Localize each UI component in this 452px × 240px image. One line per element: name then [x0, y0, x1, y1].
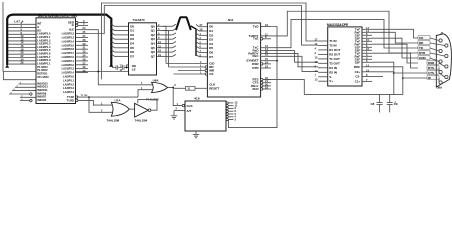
wire OR1 out down to U5 CLK — [173, 87, 182, 105]
wire U2 Q0 to bus right — [163, 26, 167, 63]
wire U4 pin down riser right — [372, 67, 403, 95]
wire group DB9 label to pin — [430, 38, 445, 83]
IC U3 8251 USART box — [207, 23, 260, 97]
node junction CTS riser — [393, 72, 395, 74]
svg-text:U6A: U6A — [153, 78, 160, 82]
pin bubble U1 bottom right 2 — [76, 99, 78, 101]
svg-text:A/T: A/T — [187, 109, 192, 113]
svg-text:LA4/P3.4: LA4/P3.4 — [63, 90, 75, 94]
wire group bus entries to U3 D pins — [196, 25, 207, 57]
svg-text:IN3/IO11: IN3/IO11 — [37, 88, 48, 92]
svg-text:LA7_9: LA7_9 — [14, 19, 23, 23]
svg-text:LA2/P3.2: LA2/P3.2 — [63, 82, 75, 86]
svg-text:CLK: CLK — [187, 104, 194, 108]
wire group U1 right pin stubs — [76, 30, 89, 73]
pin numbers OR2 inputs — [101, 101, 103, 112]
wire route TxRDY top C — [271, 11, 418, 53]
bus AD vertical right of arc — [191, 26, 196, 56]
svg-text:74ALS08: 74ALS08 — [107, 118, 120, 122]
IC U1 EPLD box — [36, 18, 76, 104]
pin bubble U3 RD — [205, 66, 207, 68]
wire U3 WR input — [178, 70, 207, 72]
pin bubble U5 CLK — [182, 104, 184, 106]
wire net ISA long horizontal to U2 LE — [3, 71, 129, 73]
wire U5 AT input from ground — [174, 110, 185, 112]
wire tap to DB9 CTS label — [394, 72, 427, 74]
svg-text:XTL1/IO0: XTL1/IO0 — [37, 75, 49, 79]
text U5 pin names — [187, 104, 194, 113]
wire group U4 left stubs — [318, 41, 328, 81]
wire U1 ALE to OR1 via vertical x98 — [88, 30, 153, 85]
wire long left vertical net ISA-D0 — [2, 2, 4, 72]
svg-text:RI.D: RI.D — [253, 87, 260, 91]
text U2 pin names D Q — [130, 24, 155, 71]
wire OR1 output junction — [168, 86, 174, 89]
svg-text:R2 IN: R2 IN — [329, 70, 337, 74]
IC U5 divider box — [185, 101, 226, 131]
svg-text:DM74LS245(8C) EPLD 7064: DM74LS245(8C) EPLD 7064 — [38, 14, 77, 18]
svg-text:Q7: Q7 — [151, 54, 155, 58]
svg-text:TY_R2: TY_R2 — [81, 95, 89, 97]
node junction on LE wire — [97, 71, 99, 73]
pin bubbles U3 right — [261, 38, 263, 91]
text U3 right pin names — [246, 25, 259, 91]
svg-text:LA26/P3.6: LA26/P3.6 — [62, 47, 75, 51]
svg-text:LA32/P2.4: LA32/P2.4 — [62, 71, 75, 75]
svg-text:R2 OUT: R2 OUT — [329, 52, 340, 56]
pin numbers U3 left D — [200, 23, 203, 57]
svg-text:DTR: DTR — [252, 66, 259, 70]
capacitor C7 inline — [120, 65, 129, 69]
ground below U5 — [195, 131, 197, 134]
svg-text:U7A: U7A — [115, 99, 122, 103]
pin bubble U1 right 1 — [76, 21, 78, 23]
capacitor C8 lead — [379, 95, 381, 103]
wire U4 V+ stub — [372, 76, 383, 78]
wire group U1 left pin rows from bus — [8, 24, 36, 64]
svg-text:T1 OUT: T1 OUT — [329, 57, 340, 61]
node junction x98 on LE wire — [98, 71, 100, 73]
svg-text:74ALS04: 74ALS04 — [135, 118, 148, 122]
wire group U1 lower-left stub staircase — [9, 84, 36, 101]
svg-text:RST/IO1: RST/IO1 — [37, 71, 48, 75]
pin numbers U2 right — [158, 23, 161, 57]
svg-text:S2F: S2F — [355, 60, 361, 64]
wire stub to U1 left pin row — [3, 72, 36, 80]
pin numbers U3 right — [265, 23, 268, 90]
svg-text:V+: V+ — [329, 79, 333, 83]
wire tap to DB9 RI label — [403, 77, 427, 79]
pin bubbles U5 outputs — [226, 102, 228, 121]
wire U1 row2 up to top route B — [88, 6, 318, 46]
svg-text:MAX232ACPE: MAX232ACPE — [327, 23, 348, 27]
pin bubble U1 right 2 — [76, 24, 78, 26]
wire OR1 junction to resonator — [173, 87, 185, 89]
pin bubble U3 CS — [205, 73, 207, 75]
svg-text:74LS373: 74LS373 — [132, 18, 145, 22]
ground below near U5 — [171, 116, 177, 119]
wire U3 C/D input — [166, 63, 207, 65]
svg-text:C9: C9 — [394, 102, 398, 106]
svg-text:LA25/P3.5: LA25/P3.5 — [62, 43, 75, 47]
svg-text:T2 IN: T2 IN — [329, 43, 336, 47]
wire inverter feedback loop — [138, 100, 157, 111]
pin numbers U1 right rows — [83, 26, 86, 73]
bus arrow end left — [5, 65, 9, 68]
svg-text:LA0/P3.0: LA0/P3.0 — [63, 75, 75, 79]
wire route RxRDY to U4 — [271, 53, 318, 66]
text DB9 signal labels — [418, 36, 439, 80]
pin numbers OR1 — [141, 81, 143, 90]
wire group U4 right stubs — [362, 29, 372, 81]
pin numbers U4 left — [315, 38, 318, 82]
wire U2 Q1 to bus right — [163, 31, 169, 67]
svg-text:LA3/P3.3: LA3/P3.3 — [63, 86, 75, 90]
wire route RTS to bottom rail — [263, 80, 304, 95]
svg-text:D7: D7 — [209, 55, 213, 59]
svg-text:C2-: C2- — [355, 75, 360, 79]
svg-text:LA23/P3.3: LA23/P3.3 — [62, 36, 75, 40]
capacitor C8 — [377, 103, 383, 113]
node junction RI riser — [402, 77, 404, 79]
gate U6A 74ALS32 OR upper — [152, 82, 168, 92]
svg-text:T1 IN: T1 IN — [329, 39, 336, 43]
svg-text:ROF: ROF — [354, 65, 361, 69]
wire route RxC to U4 — [271, 56, 318, 71]
svg-text:LA29/P2.1: LA29/P2.1 — [62, 59, 75, 63]
svg-text:C2+: C2+ — [355, 70, 361, 74]
pin circles DB9 — [439, 39, 448, 84]
node junction OR1 out — [172, 87, 174, 89]
svg-text:LA24/P3.4: LA24/P3.4 — [62, 39, 75, 43]
svg-text:T2 OUT: T2 OUT — [329, 61, 340, 65]
text U4 left pin names — [329, 39, 340, 83]
svg-text:LA1/P3.1: LA1/P3.1 — [63, 78, 75, 82]
pin bubble U1 left CS — [30, 99, 32, 101]
svg-text:D7: D7 — [130, 54, 134, 58]
text U1 left pin names — [37, 22, 51, 102]
wire top route A from x101 vertical — [101, 3, 318, 79]
bus arrow end right — [109, 64, 113, 67]
svg-text:R1 OUT: R1 OUT — [329, 48, 340, 52]
svg-text:TY.RD: TY.RD — [67, 98, 75, 102]
svg-text:LE: LE — [132, 68, 136, 72]
wire TxD down to U5 return — [229, 27, 278, 128]
wire U4 pin down riser CTS — [372, 62, 394, 94]
svg-text:LA22/P3.2: LA22/P3.2 — [62, 32, 75, 36]
svg-text:LA30/P2.2: LA30/P2.2 — [62, 63, 75, 67]
wire resonator to U3 — [195, 87, 207, 89]
pin bubble U2 OE — [126, 65, 128, 67]
pin numbers U1 lower-left — [11, 82, 24, 101]
wire OR2 input 1 — [97, 104, 113, 106]
wire OR1 input 2 riser — [138, 90, 153, 97]
svg-text:C1+: C1+ — [355, 79, 361, 83]
wire group U3 right pin stubs — [261, 27, 271, 90]
wire bottom charge pump rail — [304, 94, 403, 96]
wire ground stem — [173, 111, 175, 116]
wire group bus entries to U2 D pins — [112, 24, 129, 56]
pin bubble U1 left RESET — [30, 93, 32, 95]
wire OR2 output to INV — [129, 108, 134, 110]
svg-text:DB9: DB9 — [437, 86, 443, 90]
svg-text:CS: CS — [209, 72, 213, 76]
node junction OE wire — [126, 67, 128, 69]
wire U3 DSR to junction — [271, 60, 277, 62]
svg-text:N11: N11 — [228, 18, 234, 22]
svg-text:ALE: ALE — [69, 28, 74, 32]
capacitor C9 lead — [389, 95, 391, 103]
gate U8A 74ALS04 inverter — [135, 103, 149, 117]
svg-text:IN6/IO5: IN6/IO5 — [37, 98, 46, 102]
wire U3 RD input — [169, 66, 208, 68]
wire U4 V- stub — [372, 71, 394, 73]
wire group U1 right top stubs — [78, 23, 88, 26]
wire U4 pin to DB9 GND — [372, 38, 418, 58]
svg-text:LA28/P2.0: LA28/P2.0 — [62, 55, 75, 59]
svg-text:4C9: 4C9 — [194, 96, 200, 100]
svg-text:RESET: RESET — [209, 86, 219, 90]
svg-text:TxE: TxE — [253, 37, 259, 41]
svg-text:RxC: RxC — [252, 54, 259, 58]
resonator G1 inline RESET — [186, 86, 196, 90]
IC U2 74LS373 box — [129, 23, 157, 75]
wire U1 TY.R2 to OR2 input 2 — [78, 96, 138, 98]
wire route RxD to U4 — [271, 51, 318, 63]
IC U4 MAX232 box — [328, 27, 362, 86]
bus LA address thick outline left — [7, 15, 111, 65]
capacitor C9 — [387, 103, 393, 113]
wire group U2 Q stubs — [157, 26, 163, 56]
svg-text:LA27/P3.7: LA27/P3.7 — [62, 51, 75, 55]
pin bubble inverter out — [148, 109, 151, 112]
connector J2 DB9 shell — [436, 34, 451, 87]
node junction DSR wire — [276, 60, 278, 62]
wire route TxC up-over — [271, 19, 418, 48]
wire U4 Rx to DB9 RD — [372, 32, 418, 43]
wire OR2 input 2 — [97, 111, 113, 113]
pin numbers U4 right — [366, 26, 369, 82]
wire U4 pin to DB9 DSR — [372, 44, 418, 63]
svg-text:C8: C8 — [371, 102, 375, 106]
gate U7A 74ALS08 OR lower — [111, 102, 129, 116]
wire U4 Tx to DB9 CD — [372, 29, 418, 38]
pin bubble U1 bottom right 1 — [76, 96, 78, 98]
bus AD hop arc — [176, 17, 191, 30]
text U3 left pin names — [209, 25, 219, 91]
wire U1 TY.RD to OR2 input 1 — [78, 100, 97, 105]
svg-text:R1 IN: R1 IN — [329, 66, 337, 70]
wire U4 pin to DB9 RTS — [372, 53, 418, 68]
text U1 right pin names — [62, 20, 75, 102]
wire group U2 Q to arc bus entries — [163, 24, 177, 56]
wire U3 CS input — [174, 73, 208, 75]
pin numbers U1 left rows — [21, 21, 24, 65]
pin bubble U3 WR — [205, 69, 207, 71]
pin numbers U1 right top — [83, 19, 85, 26]
wire group U5 output stubs — [228, 103, 233, 120]
svg-text:V-: V- — [329, 75, 332, 79]
capacitor C6 inline — [112, 65, 120, 69]
text U4 right pin names — [354, 27, 361, 83]
pin numbers U5 outputs — [235, 101, 238, 122]
pin numbers U3 control — [200, 60, 202, 75]
svg-text:TxD: TxD — [253, 25, 260, 29]
svg-text:LA31/P2.3: LA31/P2.3 — [62, 67, 75, 71]
